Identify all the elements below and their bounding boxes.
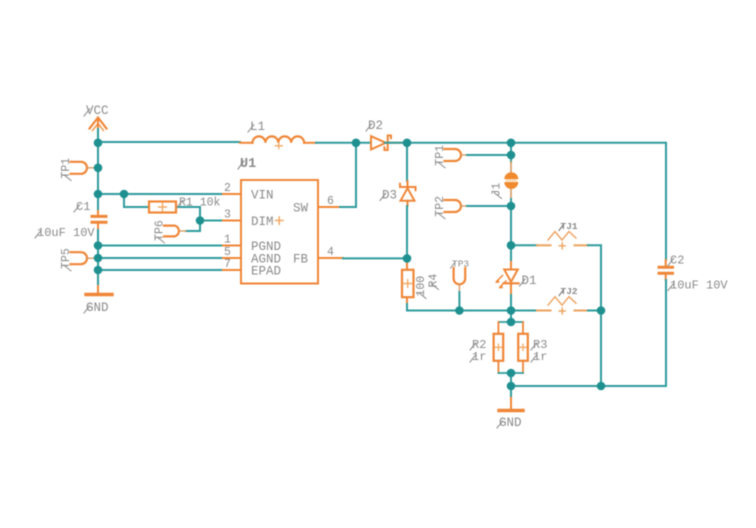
svg-text:TP2: TP2: [434, 196, 447, 217]
pin 6 SW stub: [318, 206, 340, 208]
inductor L1: [240, 136, 316, 148]
label TJ2: [559, 286, 578, 297]
wire top rail left (VCC to L1): [98, 141, 240, 143]
node TJ2 right: [597, 306, 606, 315]
svg-text:DIM: DIM: [251, 215, 274, 229]
pin 1 PGND stub: [223, 245, 241, 247]
wire DIM net (pin3): [200, 220, 223, 222]
svg-text:2: 2: [224, 182, 231, 195]
node top rail / J1 rail: [507, 139, 516, 148]
diode D3 (schottky, cathode up): [400, 181, 416, 206]
pin 3 DIM stub: [223, 220, 241, 222]
svg-text:7: 7: [224, 258, 231, 271]
test point TP3: [454, 268, 466, 292]
test point TP6: [164, 226, 186, 237]
label L1: [248, 120, 265, 134]
label TP3: [451, 259, 470, 270]
label D2: [366, 119, 383, 133]
net label GND (right): [497, 416, 522, 430]
wire D1 to TJ2 node: [510, 295, 512, 311]
label TJ1: [559, 221, 578, 232]
wire TP1 to J1 node: [467, 154, 511, 156]
node SW/L1/D2: [352, 139, 361, 148]
pin 4 FB stub: [318, 257, 343, 259]
label R4 (rotated): [428, 274, 441, 290]
wire R2R3 top bus: [498, 321, 523, 323]
node TP3: [455, 306, 464, 315]
svg-text:GND: GND: [86, 301, 109, 315]
test point TP1 (mid): [445, 149, 468, 161]
label TP1 (mid, rotated): [434, 145, 447, 168]
svg-text:4: 4: [327, 246, 334, 259]
pin 2 VIN stub: [223, 193, 241, 195]
svg-text:1: 1: [224, 234, 231, 247]
label D3: [380, 189, 397, 203]
test point TP5: [71, 252, 99, 264]
wire D3 to FB node: [406, 206, 408, 258]
label R2: [470, 338, 486, 352]
svg-text:10uF 10V: 10uF 10V: [670, 279, 728, 293]
node VIN/C1: [94, 190, 103, 199]
wire PGND net (pin1): [98, 245, 223, 247]
LED D1: [495, 262, 519, 295]
wire TP2 to J1 node: [467, 205, 511, 207]
svg-text:10uF 10V: 10uF 10V: [37, 226, 95, 240]
test point TP1 (left): [71, 162, 99, 174]
label R3: [531, 338, 547, 352]
resistor R4: [402, 258, 414, 304]
svg-text:VIN: VIN: [251, 189, 274, 203]
node VCC/top-rail: [94, 139, 103, 148]
wire TP3 stem: [458, 292, 460, 311]
node R2R3 bottom: [507, 369, 516, 378]
svg-text:R1 10k: R1 10k: [179, 197, 221, 210]
wire L1 to D2: [316, 142, 371, 144]
resistor R2: [494, 322, 504, 373]
capacitor C1: [92, 211, 106, 228]
node R2R3 top: [507, 318, 516, 327]
svg-text:100: 100: [415, 276, 428, 297]
op IC U1: [241, 180, 318, 284]
wire bottom rail mid: [459, 310, 511, 312]
label TP6 (rotated): [154, 220, 167, 243]
wire R4 to bottom rail: [407, 304, 459, 311]
pin marker + (DIM): [276, 217, 284, 224]
wire D3 rail upper: [406, 143, 408, 181]
label R1 10k: [177, 197, 221, 210]
node TP1 left: [94, 164, 103, 173]
svg-text:TP1: TP1: [434, 145, 447, 166]
wire FB net: [343, 257, 407, 259]
svg-text:3: 3: [224, 209, 231, 222]
svg-text:TP3: TP3: [452, 259, 469, 270]
wire right rail upper: [665, 143, 667, 260]
node AGND/TP5: [94, 254, 103, 263]
wire J1 to TP2 node: [510, 199, 512, 206]
label TP1 (left, rotated): [60, 158, 73, 181]
connector J1: [504, 162, 518, 199]
wire R1 to DIM node: [176, 207, 200, 231]
node EPAD: [94, 266, 103, 275]
wire EPAD net (pin7): [98, 269, 223, 271]
node TP2 mid: [507, 202, 516, 211]
label C1: [74, 200, 90, 214]
svg-text:GND: GND: [499, 416, 522, 430]
svg-text:6: 6: [327, 195, 334, 208]
thermal jumper TJ1: [511, 232, 588, 249]
wire VIN net (pin2): [98, 193, 223, 195]
value 10uF 10V (C2): [668, 279, 728, 293]
power flag VCC: [90, 118, 107, 131]
svg-text:TJ2: TJ2: [561, 286, 578, 297]
wire right drop lower: [600, 311, 602, 387]
wire R1 branch from VIN: [124, 194, 149, 207]
svg-text:TJ1: TJ1: [561, 221, 578, 232]
value 1r (R3): [531, 350, 547, 364]
label C2: [668, 254, 684, 268]
svg-text:TP6: TP6: [154, 220, 167, 241]
wire AGND net (pin5): [98, 257, 223, 259]
capacitor C2: [659, 260, 673, 280]
node TP1 mid: [507, 151, 516, 160]
wire R2R3 bottom bus: [498, 372, 523, 374]
pin 7 EPAD stub: [223, 269, 241, 271]
node FB/D3/R4: [403, 254, 412, 263]
ground GND (right): [499, 386, 523, 411]
node GND rail: [507, 382, 516, 391]
wire TJ1 node to D1: [510, 245, 512, 262]
wire left rail upper: [97, 142, 99, 211]
thermal jumper TJ2: [511, 297, 588, 314]
wire SW riser: [340, 143, 356, 207]
ground GND (left): [86, 286, 112, 295]
wire TJ2 to right drop: [588, 310, 601, 312]
net label VCC: [84, 104, 109, 118]
wire VCC stem: [97, 129, 99, 142]
node bottom rail right drop: [597, 382, 606, 391]
net label GND (left): [84, 301, 109, 315]
wire D1 node to R2R3: [510, 311, 512, 323]
svg-text:SW: SW: [293, 202, 309, 216]
svg-text:EPAD: EPAD: [251, 265, 281, 279]
diode D2 (schottky): [371, 136, 407, 151]
label TP5 (rotated): [60, 248, 73, 271]
svg-text:TP1: TP1: [60, 158, 73, 179]
wire R2R3 to bottom rail: [510, 373, 512, 386]
node TJ1 left: [507, 241, 516, 250]
svg-text:TP5: TP5: [60, 248, 73, 269]
wire right vertical rail top: [510, 143, 512, 162]
wire TJ1 to right drop: [588, 245, 601, 310]
node D2/D3: [403, 139, 412, 148]
label D1: [520, 274, 537, 288]
svg-text:VCC: VCC: [86, 104, 109, 118]
svg-text:U1: U1: [240, 157, 256, 172]
resistor R1: [149, 202, 176, 213]
node DIM: [196, 216, 205, 225]
wire right rail lower: [665, 280, 667, 386]
pin 5 AGND stub: [223, 257, 241, 259]
node PGND: [94, 241, 103, 250]
svg-text:FB: FB: [293, 253, 309, 267]
resistor R3: [518, 322, 528, 373]
node TJ2 left: [507, 306, 516, 315]
value 100 (R4, rotated): [415, 276, 428, 299]
value 10uF 10V (C1): [35, 226, 95, 240]
wire TP2 node to TJ1 node: [510, 206, 512, 245]
test point TP2 (mid): [445, 200, 468, 212]
label TP2 (mid, rotated): [434, 196, 447, 219]
label J1 (rotated): [491, 183, 504, 199]
node R1 branch: [120, 190, 129, 199]
wire left rail lower: [97, 227, 99, 286]
label U1: [238, 157, 256, 172]
wire TP6 to DIM node: [186, 230, 200, 232]
wire bottom rail right: [511, 385, 666, 387]
value 1r (R2): [470, 350, 486, 364]
wire D2 to right rail: [385, 142, 666, 144]
